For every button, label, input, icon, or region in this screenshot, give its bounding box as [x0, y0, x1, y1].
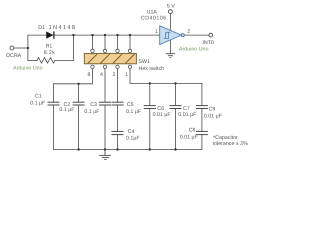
junction node C6 bottom [149, 148, 151, 150]
wire C5 to C4 middle [117, 105, 119, 131]
svg-text:SW1: SW1 [139, 59, 151, 65]
junction node C6 top [149, 82, 151, 84]
wire C3 vertical lower [104, 105, 106, 150]
svg-text:C4: C4 [128, 129, 135, 135]
svg-text:D1: D1 [38, 25, 45, 31]
wire switch stub pin top 4 [129, 35, 131, 49]
svg-text:1N4148: 1N4148 [49, 25, 77, 31]
svg-text:C9: C9 [209, 107, 216, 113]
wire C1 vertical lower [53, 105, 55, 150]
wire right vertical of D1/R1 loop [73, 35, 75, 60]
wire C1 vertical upper [53, 84, 55, 102]
svg-text:0.1 µF: 0.1 µF [59, 107, 75, 113]
resistor R1 zigzag [37, 58, 55, 64]
svg-text:Arduino Uno: Arduino Uno [13, 66, 42, 72]
wire inverter gnd stem [169, 39, 171, 53]
svg-text:2: 2 [113, 72, 116, 78]
svg-text:C8: C8 [189, 128, 196, 134]
svg-text:Arduino Uno: Arduino Uno [179, 47, 208, 53]
switch SW1 actuator diagonal 2 [100, 54, 109, 63]
svg-text:0.1µF: 0.1µF [126, 135, 140, 141]
svg-text:0.01 µF: 0.01 µF [153, 112, 172, 118]
svg-text:8: 8 [88, 72, 91, 78]
switch SW1 actuator diagonal 3 [113, 54, 122, 63]
switch SW1 actuator diagonal 1 [88, 54, 97, 63]
wire pin 2 down to C5 upper [117, 69, 119, 103]
capacitor C9 plates [196, 106, 208, 109]
svg-text:OCRA: OCRA [6, 53, 22, 59]
svg-text:0.01 µF: 0.01 µF [178, 112, 197, 118]
capacitor C1 plates [48, 102, 60, 105]
junction node C7 bottom [174, 148, 176, 150]
wire switch stub pin top 1 [92, 35, 94, 49]
wire C6 vertical lower [149, 109, 151, 150]
capacitor C6 plates [144, 106, 156, 109]
ground below inverter [166, 54, 175, 58]
svg-text:CD40106: CD40106 [141, 16, 167, 22]
svg-text:1: 1 [125, 72, 128, 78]
op-amp U1A inverter triangle [160, 26, 182, 45]
diode D1 [46, 31, 54, 38]
svg-text:C1: C1 [35, 93, 42, 99]
wire top rail [28, 34, 160, 36]
wire C2 vertical upper [78, 84, 80, 102]
ground at bottom rail [99, 150, 111, 160]
svg-text:0.1 µF: 0.1 µF [30, 100, 46, 106]
wire switch stub pin top 2 [104, 35, 106, 49]
svg-text:U1A: U1A [147, 9, 158, 15]
wire resistor branch right [55, 59, 74, 61]
svg-text:C5: C5 [127, 102, 134, 108]
wire pin 1 down and right rail [130, 69, 202, 84]
wire bottom rail [54, 149, 202, 151]
svg-text:0.01 µF: 0.01 µF [204, 113, 223, 119]
junction node switch pin top 2 [104, 34, 106, 36]
terminal INT0 [209, 33, 213, 37]
junction node C2 top [77, 83, 79, 85]
wire C9 to C8 middle [201, 109, 203, 132]
junction node C3 bottom [104, 148, 106, 150]
switch SW1 top pin circles [91, 49, 132, 52]
svg-text:INT0: INT0 [202, 40, 214, 46]
wire C9 vertical upper [201, 83, 203, 105]
junction node C2 bottom [77, 148, 79, 150]
svg-text:4: 4 [100, 72, 103, 78]
junction node switch pin top 4 [129, 34, 131, 36]
wire inverter output [184, 34, 209, 36]
wire 5V stem [169, 14, 171, 31]
wire C6 vertical upper [149, 83, 151, 105]
junction node C7 top [174, 82, 176, 84]
capacitor C8 plates [196, 131, 208, 134]
wire resistor branch left [28, 59, 37, 61]
capacitor C3 plates [99, 102, 111, 105]
junction node switch pin top 1 [91, 34, 93, 36]
op-amp U1A output bubble [181, 34, 184, 37]
junction node switch pin top 3 [116, 34, 118, 36]
wire C7 vertical upper [175, 83, 177, 105]
svg-text:5 V: 5 V [167, 4, 175, 10]
svg-text:tolerance ± 2%: tolerance ± 2% [213, 141, 249, 147]
switch SW1 actuator diagonal 4 [125, 54, 134, 63]
junction node C4 bottom [116, 148, 118, 150]
svg-text:0.1 µF: 0.1 µF [126, 109, 142, 115]
wire C7 vertical lower [175, 109, 177, 150]
wire C4 vertical lower [117, 135, 119, 150]
svg-text:0.01 µF: 0.01 µF [180, 135, 199, 141]
op-amp U1A hysteresis glyph [164, 32, 171, 38]
wire left vertical [27, 35, 29, 60]
terminal OCRA [10, 46, 14, 50]
capacitor C2 plates [73, 102, 85, 105]
switch SW1 body [84, 54, 136, 64]
svg-text:8.2k: 8.2k [44, 50, 56, 56]
wire OCRA to junction [14, 47, 28, 49]
wire pin 4 down to C3 upper [104, 69, 106, 103]
capacitor C4 plates [112, 131, 124, 134]
junction node D1/R1 right on top rail [72, 34, 74, 36]
svg-text:0.1 µF: 0.1 µF [84, 109, 100, 115]
capacitor C5 plates [112, 102, 124, 105]
capacitor C7 plates [170, 106, 182, 109]
svg-text:R1: R1 [46, 44, 53, 50]
junction node at OCRA [27, 47, 29, 49]
switch SW1 bottom pin circles [91, 65, 132, 68]
svg-text:C3: C3 [90, 102, 97, 108]
wire C2 vertical lower [78, 105, 80, 150]
wire C8 vertical lower [201, 135, 203, 150]
svg-text:1: 1 [155, 29, 158, 35]
svg-text:Hex switch: Hex switch [139, 66, 165, 72]
wire switch stub pin top 3 [117, 35, 119, 49]
terminal 5V [169, 10, 173, 14]
svg-text:2: 2 [187, 29, 190, 35]
wire pin 8 down and left to C1 [54, 69, 93, 84]
